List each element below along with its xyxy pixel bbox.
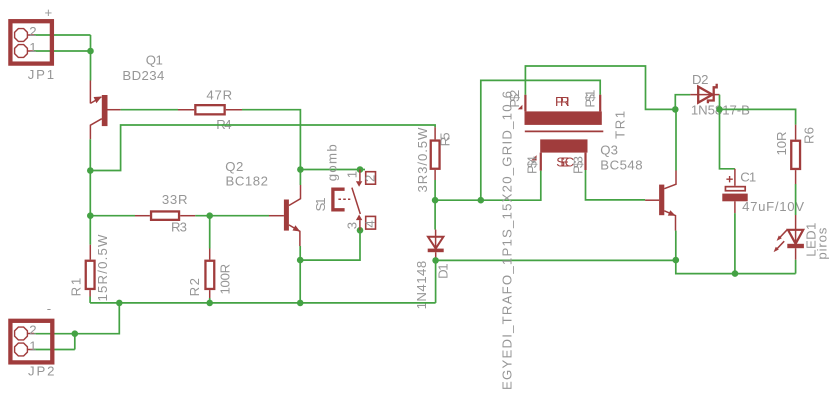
S1 value label gomb — [325, 144, 340, 181]
R3 reference label — [171, 219, 187, 234]
wire bottom bus — [90, 302, 436, 304]
resistor R5 — [431, 127, 440, 200]
JP1 pin number 2 — [29, 24, 36, 39]
wire cathode node to R6 — [720, 109, 796, 124]
Q1 value label BD234 — [122, 68, 164, 83]
junction bus below Q2 — [297, 300, 304, 307]
svg-text:2: 2 — [29, 24, 36, 39]
D1 reference label — [436, 263, 451, 279]
TR1 pin name P$4 — [524, 156, 539, 174]
LED1 value label piros — [815, 227, 830, 259]
svg-text:3: 3 — [344, 222, 359, 229]
svg-text:2: 2 — [363, 175, 378, 182]
diode D2 (schottky 1N5817-B) — [690, 84, 719, 104]
TR1 PRI winding label — [555, 94, 570, 109]
wire JP1 pin2 to node — [34, 34, 91, 36]
svg-text:P$1: P$1 — [582, 90, 597, 108]
JP2 pin 1 — [15, 343, 34, 356]
svg-text:Q3: Q3 — [600, 143, 618, 158]
JP2 polarity label - — [47, 301, 51, 316]
svg-text:gomb: gomb — [325, 144, 340, 181]
junction bus R2 — [206, 300, 213, 307]
JP2 pin number 1 — [29, 339, 36, 354]
capacitor C1 (electrolytic 47uF/10V) — [722, 169, 747, 274]
junction Q2 emitter node — [297, 257, 304, 264]
wire SEC P$3 to Q3 base — [586, 170, 646, 200]
R6 value label 10R — [774, 132, 789, 156]
C1 reference label — [740, 169, 756, 184]
wire cathode node to C1 — [720, 109, 735, 168]
wire anode node up to D2 — [675, 95, 690, 110]
junction JP2 node — [72, 330, 79, 337]
junction S1 pin3 — [357, 227, 364, 234]
svg-text:BD234: BD234 — [122, 68, 164, 83]
junction S1 pin1 — [357, 166, 364, 173]
S1 pin number 2 — [363, 175, 378, 182]
resistor R6 — [791, 125, 800, 215]
S1 pin number 3 — [344, 222, 359, 229]
JP1 pin 2 — [15, 29, 34, 42]
svg-text:C1: C1 — [740, 169, 756, 184]
svg-text:33R: 33R — [162, 192, 188, 207]
svg-text:15R/0.5W: 15R/0.5W — [95, 234, 110, 302]
R2 value label 100R — [218, 264, 233, 295]
resistor R3 — [135, 211, 195, 219]
wire S1 top — [300, 169, 365, 171]
junction S1 top left — [297, 166, 304, 173]
Q3 reference label — [600, 143, 618, 158]
wire JP2 riser — [75, 303, 120, 334]
wire node to R3 — [90, 215, 135, 217]
junction JP1 node — [87, 48, 94, 55]
wire Q3 collector riser — [675, 109, 677, 170]
junction R2 top — [206, 212, 213, 219]
wire R4 to S1/Q2 collector — [242, 110, 300, 185]
connector JP1 — [10, 21, 52, 63]
D2 value label 1N5817-B — [691, 103, 750, 118]
svg-text:100R: 100R — [218, 264, 233, 295]
svg-text:D2: D2 — [692, 72, 709, 87]
R3 value label 33R — [162, 192, 188, 207]
Q3 value label BC548 — [600, 157, 642, 172]
switch S1 (gomb) — [333, 170, 376, 231]
svg-text:1: 1 — [29, 339, 36, 354]
wire D1 down to ground bus — [435, 260, 437, 303]
svg-text:D1: D1 — [436, 263, 451, 279]
resistor R4 — [178, 105, 242, 114]
wire P$2 to D2 anode branch — [525, 66, 675, 109]
svg-text:1: 1 — [29, 40, 36, 55]
R4 reference label — [216, 117, 231, 132]
S1 pin number 1 — [344, 171, 359, 178]
junction D2 anode node — [672, 106, 679, 113]
R1 value label 15R/0.5W — [95, 234, 110, 302]
TR1 pin marker P$2 — [518, 105, 523, 110]
junction D2 cathode node — [716, 106, 723, 113]
svg-text:BC182: BC182 — [226, 174, 269, 189]
R6 reference label — [801, 127, 816, 144]
R5 value label 3R3/0.5W — [415, 127, 430, 193]
R1 reference label — [68, 278, 83, 297]
wire JP1 node down to Q1 emitter — [90, 35, 92, 81]
Q2 reference label — [225, 159, 243, 174]
wire P$1 branch — [481, 80, 600, 200]
wire D2 cathode down — [719, 95, 721, 110]
TR1 reference label — [613, 111, 628, 139]
svg-text:R1: R1 — [68, 278, 83, 297]
LED1 reference label — [804, 223, 819, 257]
svg-text:P$3: P$3 — [570, 156, 585, 174]
svg-text:TR1: TR1 — [613, 111, 628, 139]
TR1 value label — [500, 91, 515, 390]
JP2 pin 2 — [15, 327, 34, 340]
wire JP1 pin1 to node — [34, 50, 91, 52]
wire R5 bottom to SEC P$4 — [435, 171, 541, 201]
TR1 pin marker P$4 — [531, 155, 536, 160]
D2 reference label — [692, 72, 709, 87]
svg-text:47R: 47R — [206, 87, 232, 102]
R4 value label 47R — [206, 87, 232, 102]
svg-text:-: - — [47, 301, 51, 316]
transformer TR1 primary winding — [525, 95, 602, 125]
transistor Q3 (NPN BC548) — [645, 171, 676, 231]
svg-text:JP2: JP2 — [28, 363, 55, 378]
wire node to long feed — [90, 125, 435, 171]
svg-text:Q1: Q1 — [146, 53, 163, 68]
JP1 polarity label + — [45, 5, 53, 20]
svg-text:R2: R2 — [187, 278, 202, 296]
junction emitter bus node — [673, 257, 680, 264]
R2 reference label — [187, 278, 202, 296]
svg-text:S1: S1 — [313, 198, 328, 212]
resistor R2 — [205, 216, 214, 303]
S1 pin number 4 — [363, 220, 378, 227]
svg-text:EGYEDI_TRAFO_1P1S_15X20_GRID_1: EGYEDI_TRAFO_1P1S_15X20_GRID_10.6 — [500, 91, 515, 390]
transformer TR1 secondary winding — [540, 139, 587, 170]
JP2 reference label — [28, 363, 55, 378]
transistor Q2 (NPN BC182) — [269, 185, 301, 246]
svg-text:P$4: P$4 — [524, 156, 539, 174]
wire D1 cathode to emitter bus — [436, 259, 676, 261]
LED LED1 (piros) — [774, 215, 804, 274]
transistor Q1 (PNP BD234) — [90, 81, 120, 140]
junction R3/R1 node — [87, 212, 94, 219]
svg-text:PRI: PRI — [555, 94, 570, 109]
junction D1 cathode — [432, 257, 439, 264]
junction bus JP2 riser — [116, 300, 123, 307]
junction C1 bottom — [732, 270, 739, 277]
S1 reference label — [313, 198, 328, 212]
svg-text:10R: 10R — [774, 132, 789, 156]
wire JP2 pin1 — [34, 334, 75, 350]
TR1 pin name P$3 — [570, 156, 585, 174]
JP1 pin number 1 — [29, 40, 36, 55]
svg-text:1: 1 — [344, 171, 359, 178]
junction collector node — [87, 167, 94, 174]
svg-text:2: 2 — [29, 323, 36, 338]
diode D1 (1N4148) — [428, 200, 444, 258]
C1 value label 47uF/10V — [742, 199, 804, 214]
junction PRI P$1 branch — [478, 197, 485, 204]
TR1 SEC winding label — [556, 154, 574, 169]
svg-text:3R3/0.5W: 3R3/0.5W — [415, 127, 430, 193]
Q1 reference label — [146, 53, 163, 68]
wire Q3 emitter down — [675, 231, 677, 261]
wire Q1 base to R4 — [121, 109, 178, 111]
svg-text:BC548: BC548 — [600, 157, 642, 172]
resistor R1 — [86, 216, 95, 303]
svg-text:R5: R5 — [437, 132, 452, 146]
TR1 pin name P$1 — [582, 90, 597, 108]
svg-text:R6: R6 — [801, 127, 816, 144]
D1 value label 1N4148 — [414, 261, 429, 310]
svg-text:JP1: JP1 — [28, 67, 54, 82]
JP2 pin number 2 — [29, 323, 36, 338]
wire Q1 collector down — [89, 139, 91, 215]
wire S1 bottom link — [300, 230, 360, 260]
wire Q2 emitter to S1 bottom — [299, 246, 301, 303]
svg-text:4: 4 — [363, 220, 378, 227]
Q2 value label BC182 — [226, 174, 269, 189]
TR1 pin name P$2 — [507, 90, 522, 108]
connector JP2 — [10, 321, 52, 363]
svg-text:+: + — [45, 5, 53, 20]
wire JP2 pin2 — [34, 333, 75, 335]
TR1 core — [525, 130, 604, 132]
wire R3 to Q2 base — [195, 215, 269, 217]
wire emitter node jog to LED bus — [676, 260, 796, 274]
junction R5 bottom — [432, 197, 439, 204]
R5 reference label — [437, 132, 452, 146]
svg-text:Q2: Q2 — [225, 159, 243, 174]
svg-text:piros: piros — [815, 227, 830, 259]
JP1 pin 1 — [15, 45, 34, 58]
svg-text:R3: R3 — [171, 219, 187, 234]
JP1 reference label — [28, 67, 54, 82]
